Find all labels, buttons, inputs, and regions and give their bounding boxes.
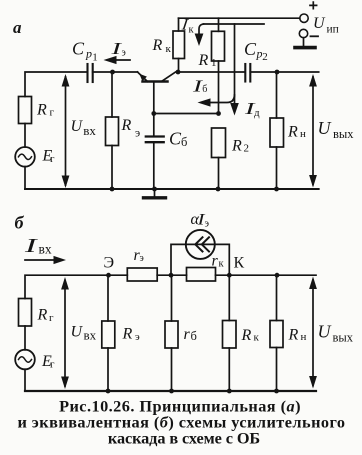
resistor Re (a) [106, 72, 119, 191]
svg-text:а: а [13, 18, 22, 37]
label Rg (b) [37, 307, 55, 325]
label r_k [212, 253, 225, 270]
wire: top rail (b) right segment [216, 274, 317, 276]
node E (emitter node b) [106, 273, 111, 278]
svg-text:б: б [181, 135, 187, 149]
resistor Rn (b) [270, 275, 283, 393]
terminal: plus of Uip [300, 2, 317, 22]
svg-text:к: к [254, 332, 260, 344]
label Re (a) [121, 117, 141, 140]
current arrow Id [230, 24, 239, 116]
svg-text:R: R [231, 138, 242, 155]
label Ik [180, 14, 195, 35]
svg-text:R: R [198, 52, 209, 69]
svg-text:R: R [287, 123, 298, 140]
svg-text:R: R [288, 327, 299, 344]
node: base junction [151, 111, 156, 116]
node K (collector node b) [227, 273, 232, 278]
svg-text:R: R [122, 326, 133, 343]
svg-text:вх: вх [83, 123, 96, 138]
resistor Rg (b) [19, 299, 32, 327]
label R2 [231, 138, 249, 155]
svg-text:б: б [202, 84, 207, 95]
wire: top supply rail to plus terminal [179, 17, 300, 19]
svg-text:U: U [318, 322, 332, 342]
wire: bottom rail (b) [25, 390, 316, 392]
label Ivx [23, 235, 52, 257]
generator Eg (a) [15, 147, 35, 167]
label Cp2 [244, 39, 268, 63]
svg-text:Э: Э [104, 255, 115, 272]
svg-text:1: 1 [92, 52, 98, 64]
label R1 [198, 52, 217, 69]
terminal: minus of Uip with chassis bar [295, 29, 318, 47]
svg-text:н: н [301, 331, 307, 343]
node: output junction [275, 70, 280, 75]
capacitor Cp1 [88, 64, 93, 82]
svg-text:C: C [244, 39, 257, 59]
svg-text:R: R [152, 37, 163, 54]
svg-text:p: p [85, 47, 92, 61]
wire: Eg to bottom rail (b) [24, 369, 26, 391]
label Cp1 [72, 39, 98, 64]
wire: collector to Cp2 [178, 71, 244, 73]
svg-text:U: U [313, 15, 326, 32]
generator Eg (b) [15, 350, 35, 370]
node: Rn top junction (b) [275, 273, 280, 278]
svg-text:R: R [37, 307, 48, 324]
svg-text:к: к [189, 25, 195, 36]
resistor R2 [212, 128, 226, 191]
svg-text:д: д [254, 107, 260, 119]
svg-text:э: э [122, 48, 126, 59]
resistor Rk (a) [173, 18, 185, 72]
label Rg (a) [36, 101, 55, 118]
svg-text:вых: вых [333, 331, 354, 345]
wire: second supply stub [204, 23, 265, 25]
measure arrow Uvyx (a) [309, 74, 317, 188]
svg-text:э: э [135, 126, 140, 140]
svg-text:r: r [184, 326, 191, 343]
label Uvx (a) [71, 118, 97, 138]
wire: Rg to Eg (b) [24, 326, 26, 350]
measure arrow Uvyx (b) [309, 277, 317, 389]
current source alpha-Ie [171, 230, 229, 275]
label Uvx (b) [71, 324, 97, 343]
capacitor Cb [146, 114, 164, 190]
svg-text:вх: вх [39, 242, 52, 257]
svg-text:2: 2 [262, 51, 268, 63]
svg-text:э: э [140, 253, 144, 264]
wire: top rail (b) left segment [25, 275, 127, 298]
label Eg (b) [41, 353, 55, 371]
label Eg (a) [42, 147, 56, 165]
svg-text:б: б [15, 213, 25, 233]
label Uip [313, 15, 339, 36]
svg-text:б: б [191, 329, 197, 343]
wire: bottom ground rail (a) [25, 188, 319, 190]
label Re (b) [122, 326, 141, 344]
label Id [243, 99, 260, 119]
svg-text:вых: вых [333, 127, 354, 141]
svg-text:U: U [318, 118, 332, 138]
label Uvyx (a) [318, 118, 355, 141]
label Rn (b) [288, 327, 307, 344]
svg-text:U: U [71, 118, 84, 135]
svg-text:н: н [300, 128, 306, 140]
node: Cb bottom junction [152, 187, 157, 192]
label Rn (a) [287, 123, 306, 140]
resistor Rn (a) [270, 72, 284, 191]
label r_b (b) [184, 326, 197, 343]
label Ie [110, 39, 126, 59]
resistor Rg (a) [19, 97, 32, 124]
svg-text:г: г [49, 312, 54, 324]
wire: Cp2 to output [250, 71, 318, 73]
wire: Rg to Eg (a) [24, 124, 26, 148]
wire: input top-left rail (a) [25, 72, 87, 97]
node: divider junction [216, 111, 221, 116]
svg-text:г: г [50, 359, 55, 371]
svg-text:вх: вх [84, 327, 97, 342]
svg-text:каскада в схеме с ОБ: каскада в схеме с ОБ [108, 429, 260, 448]
resistor r_b (b) [165, 275, 178, 393]
resistor Rk (b) [223, 275, 237, 393]
svg-text:г: г [50, 153, 55, 165]
resistor Re (b) [102, 275, 115, 393]
capacitor Cp2 [245, 64, 250, 82]
transistor VT (common-base) [138, 72, 176, 114]
ground symbol [144, 189, 166, 198]
svg-text:2: 2 [244, 143, 250, 155]
label Uvyx (b) [318, 322, 354, 345]
current arrow Ivx (b) [25, 256, 66, 264]
node: collector junction [176, 70, 181, 75]
wire: Cp1 to emitter [93, 71, 138, 73]
label Ib [191, 77, 207, 96]
svg-text:R: R [36, 101, 47, 118]
svg-text:r: r [212, 253, 219, 270]
current arrow Ie [104, 56, 131, 64]
svg-text:к: к [166, 43, 172, 55]
resistor r_e (series, b) [127, 268, 157, 281]
svg-text:R: R [241, 327, 252, 344]
svg-text:К: К [234, 255, 245, 272]
node: emitter input junction [110, 70, 115, 75]
resistor r_k (series, b) [187, 268, 216, 282]
label Rk (b) [241, 327, 260, 344]
resistor R1 [212, 18, 225, 113]
wire: Eg to bottom rail (a) [24, 167, 26, 189]
label r_e [134, 247, 144, 264]
svg-text:к: к [219, 259, 225, 270]
node: r_b / source left junction [169, 273, 174, 278]
svg-text:I: I [23, 235, 39, 257]
wire: base node to divider node [154, 113, 219, 115]
current arrow Ik [195, 24, 204, 46]
label alpha-Ie [191, 211, 210, 230]
svg-text:U: U [71, 324, 84, 341]
svg-text:R: R [121, 117, 132, 134]
svg-text:1: 1 [211, 57, 217, 69]
svg-text:C: C [72, 39, 85, 59]
measure arrow Uvx (a) [62, 74, 70, 188]
wire: top rail (b) between r_e and r_k [157, 274, 186, 276]
current arrow Ib [198, 95, 235, 107]
svg-text:э: э [135, 331, 140, 343]
measure arrow Uvx (b) [61, 277, 69, 389]
svg-text:г: г [50, 107, 55, 119]
label Rk (a) [152, 37, 172, 55]
label Cb [169, 129, 187, 150]
svg-text:ип: ип [327, 24, 339, 36]
svg-text:э: э [205, 218, 210, 229]
